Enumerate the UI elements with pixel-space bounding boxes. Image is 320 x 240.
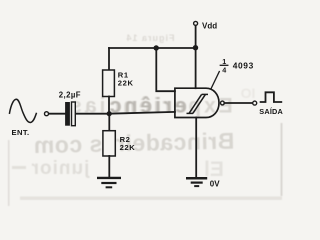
ground 0V <box>186 178 207 186</box>
junction dot rail-Vdd <box>193 45 198 50</box>
capacitor C1 right plate <box>72 102 76 126</box>
input terminal ENT <box>45 112 49 116</box>
Vdd terminal <box>194 21 198 25</box>
wire cap to node <box>75 113 109 115</box>
svg-text:SAÍDA: SAÍDA <box>259 107 283 116</box>
svg-text:Figura 14: Figura 14 <box>125 33 174 43</box>
wire output <box>224 102 252 104</box>
svg-text:2,2µF: 2,2µF <box>59 91 81 100</box>
gate output bubble <box>221 101 225 105</box>
wire input1 from rail to gate <box>156 48 175 91</box>
sine wave source symbol <box>10 99 37 122</box>
top rail wire <box>109 47 196 49</box>
wire R2 bottom <box>108 156 110 177</box>
wire gate bottom pin to ground <box>195 118 197 178</box>
wire Vdd vertical to gate top <box>195 26 197 89</box>
junction node A dot <box>107 111 112 116</box>
ground R2 <box>97 178 121 187</box>
svg-text:IO: IO <box>241 85 256 101</box>
svg-text:4093: 4093 <box>233 61 254 71</box>
pulse waveform symbol <box>261 92 282 102</box>
ghost frame right edge <box>281 123 283 196</box>
wire node to gate input2 <box>109 112 175 114</box>
resistor R1 <box>103 70 115 97</box>
svg-text:22K: 22K <box>120 143 136 152</box>
wire R1 top <box>108 48 110 70</box>
wire input node left <box>49 113 65 115</box>
svg-text:ENT.: ENT. <box>12 128 30 137</box>
svg-text:junior: junior <box>31 158 91 179</box>
leader line 1/4 4093 <box>211 72 219 89</box>
svg-text:Vdd: Vdd <box>202 21 217 30</box>
op-amp gate U1 4093 body <box>175 88 219 117</box>
junction dot rail-input1 <box>154 45 159 50</box>
capacitor C1 left plate <box>65 102 70 126</box>
wire R1 bottom <box>108 97 110 114</box>
svg-text:4: 4 <box>222 66 226 75</box>
svg-text:1: 1 <box>222 57 226 66</box>
fraction bar <box>220 64 228 66</box>
resistor R2 <box>103 131 115 156</box>
ghost bottom band <box>20 197 282 200</box>
output terminal <box>253 101 257 105</box>
ghost frame left edge <box>8 140 10 206</box>
schmitt hysteresis symbol <box>187 94 209 113</box>
svg-text:22K: 22K <box>118 79 134 88</box>
wire R2 top <box>108 114 110 131</box>
svg-text:0V: 0V <box>210 179 220 188</box>
